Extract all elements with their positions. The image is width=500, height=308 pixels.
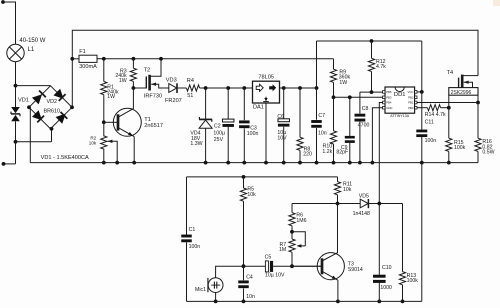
diode VD5 (360, 199, 368, 208)
svg-text:VD2: VD2 (47, 99, 58, 105)
regulator DA1 box (253, 81, 280, 103)
svg-text:C1: C1 (189, 227, 196, 233)
transistor T1 collector line (118, 108, 134, 117)
wire (369, 203, 403, 205)
svg-text:2SK2996: 2SK2996 (451, 90, 472, 96)
fuse F1 (79, 55, 97, 62)
node C6 top (282, 86, 286, 90)
transistor T1 circle (113, 108, 141, 136)
node VD4 top (204, 86, 208, 90)
bridge diode bottom-left (32, 110, 42, 120)
svg-text:1W: 1W (339, 80, 347, 86)
node R9-R10-PB3 (332, 95, 336, 99)
diode VD3 (169, 84, 177, 93)
wire (359, 122, 361, 163)
node C2 bottom (226, 161, 230, 165)
svg-text:C4: C4 (246, 274, 253, 280)
wire mic branch (216, 266, 244, 278)
node R12 top (370, 39, 374, 43)
svg-text:VD1: VD1 (18, 97, 29, 103)
wire PB0 to R14 (417, 107, 427, 109)
svg-text:1W: 1W (119, 78, 127, 84)
svg-text:4700: 4700 (358, 123, 370, 129)
transistor T4 label box 2SK2996 (449, 88, 478, 96)
wire to VD5 (338, 203, 361, 205)
bridge diode top-left (32, 94, 42, 104)
node R14-R15 junction (447, 106, 451, 110)
node R3 bottom / T2 gate node (132, 86, 136, 90)
resistor R12 (371, 41, 373, 58)
svg-text:DA1: DA1 (253, 104, 264, 110)
wire (3, 1, 16, 3)
node VCC junction (420, 90, 424, 94)
capacitor C10 (373, 275, 386, 278)
node T1 emitter bottom (132, 161, 136, 165)
wire lower box bottom line (187, 300, 422, 302)
svg-text:C5: C5 (265, 255, 272, 261)
svg-text:10n: 10n (318, 130, 327, 136)
wire (205, 88, 207, 119)
node R13 bottom (401, 300, 405, 304)
wire (316, 88, 318, 120)
svg-text:10k: 10k (247, 192, 256, 198)
wire box to PB1 line (477, 95, 479, 102)
wire (316, 128, 318, 163)
regulator DA1 input arrow (256, 84, 263, 91)
transistor T2 channel bar (148, 75, 151, 91)
transistor T2 source (151, 83, 156, 86)
svg-text:PB2: PB2 (408, 96, 414, 100)
bridge diode bottom-right (56, 114, 66, 124)
node R2 bottom (102, 161, 106, 165)
svg-text:10V: 10V (277, 136, 287, 142)
svg-text:T4: T4 (447, 70, 454, 76)
capacitor C2 (222, 119, 234, 122)
node C7 bottom (315, 161, 319, 165)
svg-text:10k: 10k (343, 187, 352, 193)
capacitor C8 (355, 114, 366, 117)
node R5 top (242, 175, 246, 179)
svg-text:T2: T2 (144, 68, 151, 74)
resistor R5 (240, 188, 246, 201)
wire (349, 143, 351, 163)
wire PB4 to lower section (379, 103, 382, 204)
svg-text:300mA: 300mA (79, 64, 97, 70)
wire PB3 line (334, 96, 386, 98)
wire (421, 137, 423, 163)
svg-text:100k: 100k (407, 278, 419, 284)
svg-text:220: 220 (303, 152, 312, 158)
wire base wire (104, 121, 117, 123)
wire (16, 85, 51, 87)
IC DD1 pins (383, 91, 385, 94)
node C9 bottom (348, 161, 352, 165)
svg-text:PB5: PB5 (386, 90, 392, 94)
svg-text:78L05: 78L05 (258, 74, 274, 80)
svg-text:C2: C2 (214, 124, 221, 130)
transistor T3 collector line (322, 253, 338, 261)
wire VCC wire (417, 91, 422, 93)
transistor T3 emitter line (322, 271, 338, 280)
regulator DA1 output arrow (269, 84, 276, 91)
svg-text:10k: 10k (89, 141, 97, 146)
capacitor C7 (311, 120, 322, 123)
wire C4 lead (243, 266, 245, 280)
wire lower box left (186, 177, 188, 235)
resistor R9 (330, 69, 336, 82)
wire (227, 88, 229, 119)
transistor T3 base wire (292, 265, 322, 267)
svg-text:82pF: 82pF (336, 150, 348, 156)
wire (186, 242, 188, 301)
wire C8 riser (359, 92, 361, 114)
svg-text:40-150 W: 40-150 W (19, 38, 45, 44)
transistor T4 gate bar (458, 78, 460, 88)
wire T3 collector (337, 204, 339, 254)
wire bridge right up to fuse rail (71, 59, 73, 108)
svg-text:51: 51 (187, 93, 193, 99)
node C10 bottom (377, 300, 381, 304)
wire C10 lead (378, 204, 380, 275)
node R1-R2-base junction (102, 120, 106, 124)
resistor R14 (427, 105, 440, 111)
bridge rectifier VD2 outline (29, 86, 72, 129)
node C11 bottom (420, 161, 424, 165)
wire (283, 127, 285, 163)
wire (215, 293, 217, 302)
transistor T4 drain (462, 75, 478, 77)
svg-text:C7: C7 (318, 113, 325, 119)
node R11-T3-VD5 junction (336, 202, 340, 206)
wire (15, 86, 17, 107)
wire T1 collector (132, 88, 134, 109)
wire R3 to T2 gate (133, 87, 146, 89)
wire (51, 129, 53, 142)
node R8 bottom (298, 161, 302, 165)
resistor R13 (399, 272, 405, 285)
node T2 drain rail (159, 57, 163, 61)
IC DD1 box (385, 87, 415, 113)
node DA1 ground bottom (264, 161, 268, 165)
svg-text:PB3: PB3 (386, 96, 392, 100)
R7 wiper (292, 232, 305, 246)
wire bridge left to bottom rail (29, 107, 31, 162)
resistor R10 (333, 97, 335, 131)
wire bottom rail (30, 162, 478, 164)
wire (349, 97, 351, 136)
transistor T4 channel bar (461, 75, 464, 90)
wire (15, 62, 17, 86)
wire R6 top corner (291, 204, 293, 213)
wire VCC riser (421, 41, 423, 92)
wire mic line to C5 (244, 265, 266, 267)
node bridge bottom corner (50, 127, 54, 131)
regulator DA1 ground pin symbol (265, 97, 267, 100)
node VD5-C10-PB4 junction (377, 202, 381, 206)
wire (243, 288, 245, 301)
transistor T3 circle (317, 253, 344, 280)
svg-text:100µ: 100µ (213, 130, 225, 136)
capacitor C11 (416, 130, 427, 133)
wire (15, 121, 17, 142)
node R16 top (476, 101, 480, 105)
capacitor C6 (278, 119, 290, 122)
svg-text:1W: 1W (107, 94, 115, 100)
node R6-R7 junction (290, 230, 294, 234)
trimmer R7 (291, 232, 293, 239)
wire PB5 line (360, 91, 385, 93)
wire R15 riser (448, 95, 450, 138)
zener diode VD4 (199, 118, 212, 120)
svg-text:R14 4.7k: R14 4.7k (425, 112, 446, 118)
svg-text:C10: C10 (382, 265, 392, 271)
svg-text:100n: 100n (247, 131, 259, 137)
wire GND pin (372, 108, 382, 163)
svg-text:10µ 10V: 10µ 10V (265, 272, 285, 278)
node C6 bottom (282, 161, 286, 165)
resistor R3 (132, 59, 134, 68)
node R3 top (132, 57, 136, 61)
capacitor C3 (239, 120, 250, 123)
node AC input terminal 2 (2, 162, 6, 166)
bridge diode top-right (53, 89, 63, 99)
node C8 bottom (358, 161, 362, 165)
svg-text:C11: C11 (425, 119, 434, 125)
wire (15, 142, 17, 164)
wire (4, 163, 16, 165)
wire (283, 88, 285, 119)
microphone Mic1 (208, 278, 223, 293)
transistor T1 base bar (117, 114, 120, 130)
capacitor C9 (345, 136, 355, 139)
node DD1 GND bottom (371, 161, 375, 165)
wire fuse rail (97, 58, 334, 60)
wire fuse input segment (72, 58, 79, 60)
svg-text:2n6517: 2n6517 (144, 123, 163, 129)
node T3 emitter bottom (336, 300, 340, 304)
wire (243, 88, 245, 120)
wire 5V rail (317, 40, 422, 42)
wire DA1 output (280, 87, 317, 89)
resistor R8 (299, 88, 301, 137)
decor (493, 0, 500, 6)
node C9 top (348, 95, 352, 99)
transistor T2 gate bar (145, 77, 147, 89)
wire lower box right riser (421, 163, 423, 302)
svg-text:1.3W: 1.3W (190, 141, 202, 147)
svg-text:VD3: VD3 (166, 77, 177, 83)
node C7 top 5V junction (315, 86, 319, 90)
wire lower box top line (187, 176, 338, 178)
node R11 top corner (337, 177, 339, 182)
svg-text:C8: C8 (362, 106, 369, 112)
svg-text:PB1: PB1 (408, 101, 414, 105)
resistor R6 (289, 213, 295, 226)
node bridge right corner (70, 105, 74, 109)
svg-text:L1: L1 (28, 47, 35, 53)
resistor R4 (186, 85, 199, 91)
capacitor C5 electrolytic horizontal (265, 261, 268, 272)
resistor R16 (477, 103, 479, 139)
node VD1-AC2 junction (14, 140, 18, 144)
svg-text:ATTINY13A: ATTINY13A (390, 114, 410, 118)
lamp L1 (7, 44, 24, 61)
node lamp-bridge junction (14, 84, 18, 88)
transistor T3 base bar (321, 258, 324, 274)
svg-text:VCC: VCC (407, 90, 413, 94)
svg-text:BR610: BR610 (44, 108, 60, 114)
svg-text:100n: 100n (425, 138, 437, 144)
svg-text:10n: 10n (246, 294, 255, 300)
svg-text:F1: F1 (79, 49, 86, 55)
transistor T4 source (464, 81, 469, 84)
trimmer R2 (101, 122, 107, 162)
resistor R11 (334, 182, 340, 195)
transistor T1 emitter line (118, 128, 134, 137)
svg-text:0.5W: 0.5W (482, 150, 494, 156)
node C3 bottom (242, 161, 246, 165)
wire (273, 265, 321, 267)
svg-text:100n: 100n (189, 244, 201, 250)
svg-text:S9014: S9014 (348, 267, 363, 273)
node mic-C4 junction (242, 264, 246, 268)
svg-text:VD5: VD5 (359, 193, 369, 199)
svg-text:PB0: PB0 (408, 106, 414, 110)
svg-text:R4: R4 (187, 78, 194, 84)
node R8 top (298, 86, 302, 90)
node AC input terminal 1 (1, 0, 5, 4)
svg-text:DD1: DD1 (394, 92, 406, 98)
node R2 wiper bottom (115, 161, 119, 165)
svg-text:100k: 100k (454, 145, 466, 151)
TVS suppressor VD1 (11, 107, 20, 113)
wire (227, 127, 229, 163)
wire R6 feedback line (292, 203, 338, 205)
svg-text:Mic1: Mic1 (195, 287, 206, 293)
wire T3 emitter down (337, 280, 339, 301)
wire (16, 141, 52, 143)
resistor R1 (103, 59, 105, 82)
wire C11 lead (421, 92, 423, 130)
svg-text:1M6: 1M6 (296, 218, 306, 224)
svg-text:FR207: FR207 (165, 98, 182, 104)
wire (378, 283, 380, 302)
wire (178, 87, 187, 89)
svg-text:IRF730: IRF730 (144, 94, 162, 100)
node C4 bottom (242, 300, 246, 304)
wire (243, 128, 245, 162)
node Mic1 bottom (214, 300, 218, 304)
wire R13 riser (402, 204, 404, 272)
wire top rail (72, 30, 478, 75)
wire 5V riser (316, 41, 318, 88)
node VD4 bottom (204, 161, 208, 165)
svg-text:C6: C6 (277, 114, 284, 120)
node C2 top (226, 86, 230, 90)
svg-text:25V: 25V (214, 137, 224, 143)
node R7 bottom (290, 264, 294, 268)
node R1 top (102, 57, 106, 61)
svg-text:PB4: PB4 (386, 101, 392, 105)
svg-text:1M: 1M (279, 247, 286, 253)
svg-text:4.7k: 4.7k (376, 64, 386, 70)
node bridge left corner (27, 105, 31, 109)
svg-text:VD1 - 1.5KE400CA: VD1 - 1.5KE400CA (41, 155, 89, 161)
node fuse input (70, 57, 74, 61)
svg-text:1000: 1000 (380, 285, 392, 291)
wire DA1 ground (265, 103, 267, 163)
R2 wiper arrow (108, 140, 113, 143)
svg-text:1.2k: 1.2k (322, 149, 332, 155)
node C3 top (242, 86, 246, 90)
node R10 bottom (332, 161, 336, 165)
wire T1 emitter down (133, 137, 135, 163)
wire (15, 2, 17, 45)
resistor R15 (446, 138, 452, 151)
wire PB1 line (417, 102, 478, 104)
node R15 bottom (447, 161, 451, 165)
capacitor C4 (238, 280, 249, 283)
svg-text:GND: GND (386, 106, 392, 110)
svg-text:1n4148: 1n4148 (353, 211, 370, 217)
node R12 bottom PB5 (370, 90, 374, 94)
wire fuse rail into R9 (333, 59, 335, 69)
transistor T2 drain (150, 59, 161, 77)
wire (200, 87, 253, 89)
wire (441, 107, 449, 109)
capacitor C1 (181, 235, 192, 238)
